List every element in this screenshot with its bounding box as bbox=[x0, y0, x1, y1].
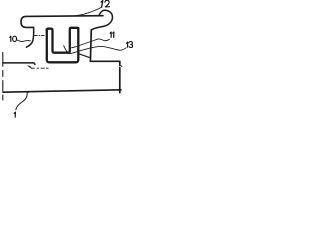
right lower shelf bbox=[90, 60, 119, 62]
leader for 13 bbox=[64, 46, 126, 54]
connector web from box to right wall bbox=[79, 54, 91, 58]
open-top box: left outer wall + bottom + connection bbox=[47, 28, 79, 62]
leader for 10 bbox=[17, 40, 30, 42]
kink of leader 1 crossing base line bbox=[27, 92, 29, 93]
profile top wall (12) with left rounded tongue bbox=[21, 16, 103, 28]
label 12 bbox=[101, 1, 103, 8]
left jaw wall descending from tongue bbox=[26, 27, 33, 47]
right vertical wall down to base bbox=[119, 61, 121, 92]
left center line (dash) bbox=[2, 53, 4, 101]
right end curl / wave (11) bbox=[91, 10, 112, 30]
label 11 bbox=[110, 32, 111, 37]
dashed arrow pointing to left shelf corner bbox=[31, 67, 48, 69]
shelf corner tick bbox=[120, 65, 122, 66]
left shelf line bbox=[3, 63, 35, 65]
leader for 1 bbox=[16, 92, 27, 110]
label 13 bbox=[127, 42, 128, 47]
tooth 1 cap and inner wall bbox=[47, 29, 68, 53]
label 1 bbox=[14, 112, 15, 117]
mouth dash-dot centerline bbox=[35, 35, 45, 37]
leader for 11 bbox=[72, 39, 110, 48]
right wall of profile bbox=[89, 30, 92, 62]
label 10 bbox=[10, 36, 11, 41]
tooth 2: left wall, cap bbox=[68, 28, 78, 53]
base surface line (1) bbox=[3, 90, 121, 92]
leader for 12 bbox=[73, 7, 102, 16]
